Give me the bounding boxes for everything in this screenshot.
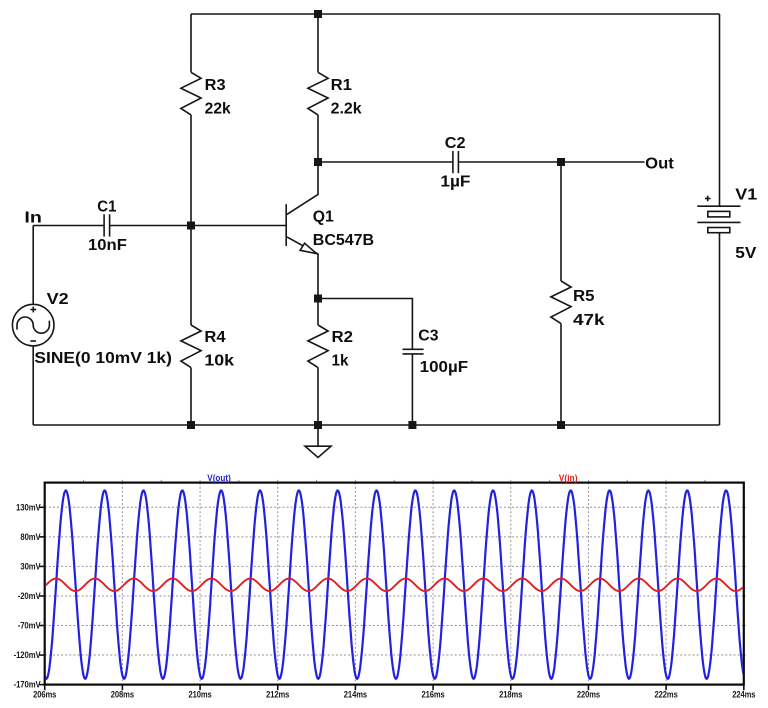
wire R3-R4 xyxy=(190,115,192,325)
svg-text:222ms: 222ms xyxy=(655,690,678,700)
y axis labels xyxy=(14,502,41,689)
wire R4 bottom lead xyxy=(190,368,192,425)
x axis labels xyxy=(33,690,755,700)
svg-text:-70mV: -70mV xyxy=(18,621,41,631)
wire R5 top lead xyxy=(560,162,562,281)
svg-text:218ms: 218ms xyxy=(499,690,522,700)
svg-text:224ms: 224ms xyxy=(732,690,755,700)
resistor R5 xyxy=(551,281,571,324)
svg-text:R1: R1 xyxy=(331,77,353,94)
capacitor C1 xyxy=(104,214,110,236)
wire C3 bottom lead xyxy=(411,354,413,425)
wire R3 top lead xyxy=(190,14,192,72)
svg-text:208ms: 208ms xyxy=(111,690,134,700)
plot axis ticks xyxy=(39,507,744,690)
node out junction xyxy=(557,158,565,166)
svg-text:2.2k: 2.2k xyxy=(331,101,362,118)
capacitor C2 xyxy=(453,151,459,173)
wire R1 top lead xyxy=(317,14,319,72)
svg-text:Q1: Q1 xyxy=(313,208,334,225)
node top junction xyxy=(314,10,322,18)
node R5 ground junction xyxy=(557,421,565,429)
svg-text:V1: V1 xyxy=(735,186,757,203)
svg-text:1k: 1k xyxy=(332,352,349,369)
node R2 ground junction xyxy=(314,421,322,429)
wire emitter node to C3 xyxy=(318,299,412,350)
svg-text:30mV: 30mV xyxy=(20,562,40,572)
resistor R4 xyxy=(181,325,201,368)
wire R2 bottom lead xyxy=(317,368,319,425)
trace V(out) blue xyxy=(45,490,744,678)
wire R5 bottom lead xyxy=(560,324,562,425)
svg-text:100µF: 100µF xyxy=(420,359,468,376)
svg-text:80mV: 80mV xyxy=(20,532,40,542)
node collector junction xyxy=(314,158,322,166)
wire V1 bottom xyxy=(719,233,721,425)
svg-text:C3: C3 xyxy=(418,327,439,344)
wire top rail xyxy=(191,13,720,15)
wire collector node to C2 xyxy=(318,161,453,163)
ground xyxy=(305,425,331,458)
svg-text:R5: R5 xyxy=(573,288,595,305)
svg-text:In: In xyxy=(24,210,42,227)
svg-text:220ms: 220ms xyxy=(577,690,600,700)
wire V2 to bottom rail xyxy=(32,346,34,425)
plot border xyxy=(45,483,744,685)
svg-text:212ms: 212ms xyxy=(266,690,289,700)
node R4 ground junction xyxy=(187,421,195,429)
wire C2 to Out xyxy=(458,161,644,163)
wire bottom rail xyxy=(33,424,719,426)
svg-text:R4: R4 xyxy=(204,329,226,346)
plot grid xyxy=(45,480,747,685)
svg-text:1µF: 1µF xyxy=(440,173,470,190)
svg-text:210ms: 210ms xyxy=(188,690,211,700)
svg-text:47k: 47k xyxy=(573,312,605,329)
node C3 ground junction xyxy=(408,421,416,429)
svg-text:R2: R2 xyxy=(332,329,354,346)
wire emitter to R2 xyxy=(317,299,319,326)
svg-text:22k: 22k xyxy=(205,101,231,118)
capacitor C3 xyxy=(403,349,424,354)
trace V(in) red xyxy=(45,579,744,592)
transistor Q1 xyxy=(286,162,318,299)
wire C1 to base node xyxy=(110,225,191,227)
wire V1 top xyxy=(719,14,721,206)
svg-text:V(in): V(in) xyxy=(559,473,578,483)
svg-text:216ms: 216ms xyxy=(421,690,444,700)
svg-text:SINE(0 10mV 1k): SINE(0 10mV 1k) xyxy=(34,350,172,367)
source V2 xyxy=(12,304,54,346)
node base junction xyxy=(187,222,195,230)
svg-text:-20mV: -20mV xyxy=(18,591,41,601)
svg-text:-120mV: -120mV xyxy=(14,650,41,660)
resistor R3 xyxy=(181,72,201,115)
svg-text:130mV: 130mV xyxy=(16,502,41,512)
svg-text:C2: C2 xyxy=(445,135,466,152)
resistor R2 xyxy=(308,325,328,368)
svg-text:BC547B: BC547B xyxy=(313,232,374,249)
svg-text:10nF: 10nF xyxy=(88,237,127,254)
svg-text:10k: 10k xyxy=(204,352,234,369)
svg-text:5V: 5V xyxy=(735,245,757,262)
wire In vertical to V2 xyxy=(32,226,34,305)
wire base node to Q1 xyxy=(191,225,286,227)
svg-text:V2: V2 xyxy=(47,291,69,308)
svg-text:V(out): V(out) xyxy=(207,473,231,483)
svg-text:Out: Out xyxy=(645,155,674,172)
svg-text:R3: R3 xyxy=(205,77,226,94)
wire R1 to collector node xyxy=(317,115,319,162)
node emitter junction xyxy=(314,295,322,303)
wire In to C1 xyxy=(33,225,104,227)
svg-text:214ms: 214ms xyxy=(344,690,367,700)
svg-text:C1: C1 xyxy=(97,199,116,216)
resistor R1 xyxy=(308,72,328,115)
svg-text:206ms: 206ms xyxy=(33,690,56,700)
svg-text:-170mV: -170mV xyxy=(14,680,41,690)
battery V1 xyxy=(697,196,740,233)
